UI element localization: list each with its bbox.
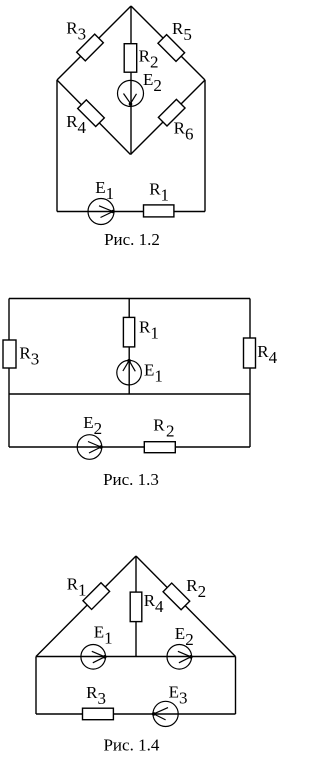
wire diamond side top-right [131,6,205,80]
resistor R2 [163,583,190,610]
wire bottom rail [57,211,205,213]
svg-text:Рис. 1.2: Рис. 1.2 [104,230,160,249]
source E2 [77,435,102,460]
wire lower-left side [35,657,37,715]
wire middle branch [130,6,132,44]
resistor R4 [78,100,105,127]
wire top rail [9,298,250,300]
resistor R2 [144,442,175,453]
source E2 [167,645,192,670]
wire triangle left side [36,556,136,657]
wire triangle right side [136,556,236,657]
wire middle branch [135,556,137,657]
resistor R5 [158,35,185,62]
wire lower-right side [235,657,237,715]
wire diamond side top-left [57,6,131,80]
wire diamond side bottom-left [57,80,131,155]
wire right drop [204,80,206,212]
source E1 [81,645,106,670]
resistor R1 [83,583,110,610]
wire lower bottom rail [36,713,236,715]
svg-text:Рис. 1.3: Рис. 1.3 [103,470,159,489]
wire diamond side bottom-right [131,80,206,155]
wire middle branch [128,299,130,319]
resistor R6 [158,99,185,126]
svg-text:Рис. 1.4: Рис. 1.4 [103,736,159,755]
source E2 [118,80,144,106]
wire middle rail [9,393,250,395]
wire left side [8,299,10,448]
resistor R3 [83,708,114,720]
wire left drop [56,80,58,212]
resistor R3 [3,340,16,368]
wire right side [249,299,251,448]
resistor R2 [124,44,137,72]
resistor R1 [144,205,174,217]
resistor R3 [77,34,104,61]
wire bottom rail [9,446,250,448]
source E1 [117,360,142,385]
source E3 [153,701,178,726]
resistor R4 [130,592,142,622]
wire triangle base [36,656,236,658]
source E1 [88,199,114,225]
resistor R4 [244,338,256,368]
resistor R1 [123,317,134,347]
